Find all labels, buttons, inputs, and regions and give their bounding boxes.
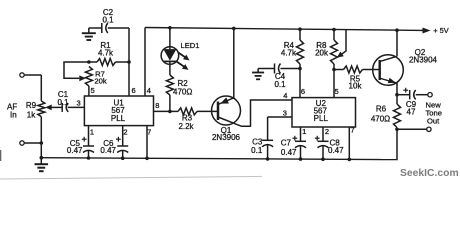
wire rail to U1 pin 4	[144, 28, 146, 97]
wire R3 left	[170, 110, 178, 112]
svg-text:SeekIC.com: SeekIC.com	[400, 168, 459, 179]
svg-text:4: 4	[147, 86, 151, 95]
node R4/C4/pin6	[298, 67, 302, 71]
svg-text:0.47: 0.47	[281, 148, 297, 157]
LED1 light arrows	[178, 52, 185, 57]
wire U2 pin1 to C7	[300, 127, 302, 141]
capacitor C2	[101, 23, 103, 33]
scan artifact bottom streak	[0, 176, 262, 179]
svg-text:0.1: 0.1	[57, 98, 69, 107]
svg-text:R9: R9	[26, 101, 37, 110]
R7 wiper loop	[64, 62, 89, 78]
node input common junction	[40, 141, 44, 145]
transistor Q1 2N3906	[212, 96, 241, 125]
svg-text:2: 2	[123, 127, 127, 136]
svg-text:6: 6	[132, 86, 136, 95]
node rail/R4	[298, 27, 302, 31]
ground symbol (main, at input common)	[40, 158, 42, 165]
node rail/R8	[332, 28, 336, 32]
R9 wiper arrow	[51, 106, 62, 108]
op U2 567 PLL	[292, 98, 356, 127]
svg-text:3: 3	[77, 99, 81, 108]
capacitor C1	[61, 103, 63, 112]
node R1/R7 junction	[87, 60, 91, 64]
wire U1 pin1 to C5	[88, 126, 90, 146]
svg-text:8: 8	[155, 101, 159, 110]
resistor R2	[166, 75, 173, 95]
LED LED1	[161, 47, 179, 65]
svg-text:3: 3	[283, 109, 287, 118]
svg-text:4.7k: 4.7k	[281, 48, 297, 57]
wire R9 top	[40, 75, 42, 101]
svg-text:470Ω: 470Ω	[371, 115, 390, 124]
svg-text:5: 5	[91, 86, 95, 95]
svg-text:C7: C7	[281, 138, 292, 147]
input terminal (AF In common)	[20, 141, 24, 145]
node emitter/C9/R6	[395, 93, 399, 97]
wire R3 to Q1 base	[197, 110, 218, 112]
wire R8 to node	[333, 64, 335, 70]
R7 wiper arrow	[79, 75, 86, 81]
svg-text:10k: 10k	[349, 82, 363, 91]
node rail/Q2 collector	[395, 28, 399, 32]
wire U2 pin3	[268, 116, 292, 118]
wire Q1 emitter to rail	[233, 28, 235, 98]
wire U2 pin2 to C8	[322, 127, 324, 141]
wire rail to LED	[169, 28, 171, 48]
svg-text:4: 4	[283, 91, 287, 100]
resistor R4	[297, 40, 304, 64]
wire C6 to bus	[122, 151, 124, 159]
R8 wiper loop	[342, 30, 347, 55]
capacitor C3	[262, 139, 273, 141]
capacitor C7	[295, 140, 306, 142]
resistor R5	[344, 66, 363, 73]
wire Q2 emitter down	[396, 82, 398, 84]
capacitor C9	[409, 90, 411, 99]
wire C8 to bus	[322, 146, 324, 160]
svg-text:2N3906: 2N3906	[212, 133, 241, 142]
svg-text:0.47: 0.47	[100, 146, 116, 155]
wire Q2 collector to rail	[396, 30, 398, 56]
wire rail to R8	[333, 30, 335, 40]
potentiometer R7	[85, 67, 92, 87]
transistor Q2 2N3904	[373, 55, 404, 86]
resistor R3	[178, 108, 197, 115]
svg-text:PLL: PLL	[314, 114, 329, 123]
node rail/Q1 emitter	[232, 27, 236, 31]
capacitor C6	[117, 145, 128, 147]
wire Q1 collector to U2 pin4	[251, 100, 293, 127]
wire pin3 to C3	[267, 117, 269, 140]
scan artifact left edge	[0, 150, 1, 161]
svg-text:6: 6	[301, 87, 305, 96]
wire ground to C2	[89, 27, 102, 29]
svg-text:5: 5	[335, 87, 339, 96]
resistor R6	[394, 104, 401, 128]
svg-text:1: 1	[302, 127, 306, 136]
R8 wiper arrow	[337, 52, 344, 58]
wire input bottom	[24, 142, 41, 144]
svg-text:1: 1	[90, 127, 94, 136]
svg-text:20k: 20k	[94, 77, 106, 86]
wire to C9	[397, 94, 410, 96]
wire C2 to pin6 vertical	[108, 27, 129, 29]
wire R5 left	[334, 69, 344, 71]
op U1 567 PLL	[84, 96, 153, 126]
output terminal (New Tone Out hot)	[428, 93, 432, 97]
node R6 bottom/output return	[395, 128, 399, 132]
output terminal (return)	[427, 127, 431, 131]
ground symbol (C4)	[257, 69, 259, 73]
svg-text:2.2k: 2.2k	[178, 122, 194, 131]
svg-text:R2: R2	[178, 79, 189, 88]
potentiometer R9	[38, 101, 45, 117]
capacitor C8	[318, 140, 329, 142]
svg-text:In: In	[10, 111, 17, 120]
wire ground to C4	[258, 68, 274, 70]
svg-text:R6: R6	[376, 104, 387, 113]
svg-text:20k: 20k	[315, 48, 329, 57]
svg-text:0.47: 0.47	[67, 146, 83, 155]
svg-text:Out: Out	[427, 117, 440, 126]
wire U1 pin 8	[154, 110, 171, 112]
wire C9 to output	[416, 94, 428, 96]
ground bus (0V rail)	[41, 158, 397, 160]
svg-text:+ 5V: + 5V	[433, 26, 448, 35]
svg-text:7: 7	[351, 126, 355, 135]
wire LED to R2	[169, 64, 171, 75]
wire node to U2 pin6	[299, 69, 301, 98]
node rail/LED junction	[168, 26, 172, 30]
wire R5 to Q2 base	[363, 69, 380, 71]
svg-text:LED1: LED1	[181, 41, 200, 50]
wire node to R6	[396, 95, 398, 104]
wire U1 pin2 to C6	[122, 126, 124, 146]
wire U2 pin7 to bus	[348, 127, 350, 159]
svg-text:470Ω: 470Ω	[173, 88, 192, 97]
+5V arrow terminal	[423, 28, 431, 34]
svg-text:2: 2	[325, 127, 329, 136]
wire R9 bottom	[40, 117, 42, 158]
svg-text:PLL: PLL	[111, 114, 126, 123]
svg-text:0.47: 0.47	[328, 146, 344, 155]
node R1 right junction	[127, 60, 131, 64]
wire C7 to bus	[300, 146, 302, 160]
wire rail to R4	[299, 29, 301, 40]
wire R7 to U1 pin 5	[88, 86, 90, 96]
node pin8/R2/R3 junction	[168, 110, 172, 114]
wire U1 pin7 to bus	[146, 126, 148, 159]
capacitor C5	[83, 145, 94, 147]
+5V supply rail	[145, 28, 422, 31]
wire R1 right	[116, 61, 130, 63]
ground symbol (C2)	[88, 28, 90, 33]
wire C4 to R4 node	[281, 68, 301, 70]
svg-text:0.1: 0.1	[102, 15, 114, 24]
wire R6 to output return	[397, 128, 427, 130]
wire R1 left	[89, 61, 97, 63]
potentiometer R8	[331, 40, 338, 64]
wire C1 to U1 pin 3	[68, 106, 85, 108]
svg-text:47: 47	[407, 107, 416, 116]
svg-text:0.1: 0.1	[274, 80, 286, 89]
wire R4 to node	[299, 64, 301, 69]
wire C3 to bus	[267, 145, 269, 159]
svg-text:4.7k: 4.7k	[98, 49, 114, 58]
node R8/R5/pin5	[332, 68, 336, 72]
node bus left end	[40, 156, 44, 160]
wire C5 to bus	[88, 151, 90, 159]
svg-text:2N3904: 2N3904	[409, 55, 438, 64]
capacitor C4	[274, 64, 276, 74]
wire R2 to pin8 node	[169, 95, 171, 111]
wire input top	[24, 74, 41, 76]
resistor R1	[97, 59, 116, 66]
wire R6 bottom to bus	[396, 129, 398, 159]
input terminal (AF In hot)	[20, 73, 24, 77]
wire node to U2 pin5	[333, 70, 335, 98]
svg-text:1k: 1k	[27, 110, 36, 119]
svg-text:0.1: 0.1	[251, 146, 263, 155]
